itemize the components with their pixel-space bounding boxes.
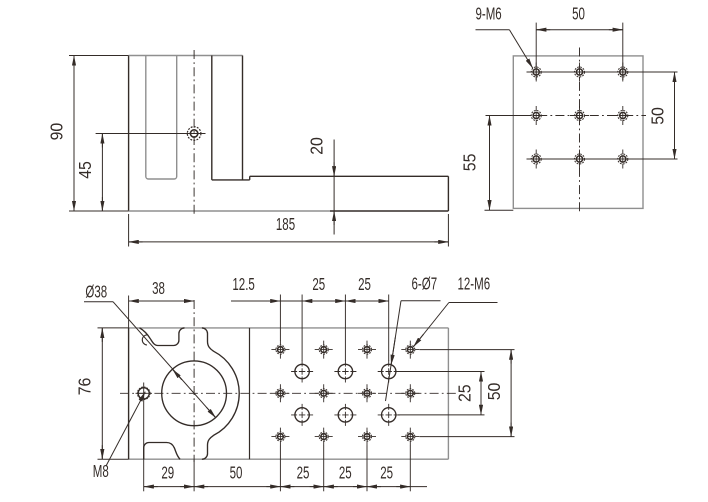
M6 hole bottom r1c3 — [358, 341, 376, 359]
bottom view: boss contour (arc around bore) — [202, 328, 239, 459]
M6 hole r2c1 — [527, 106, 546, 125]
svg-text:45: 45 — [75, 161, 95, 179]
svg-text:50: 50 — [647, 107, 667, 125]
bottom view: bottom edge — [129, 458, 449, 460]
M6 hole bottom r3c1 — [271, 428, 289, 446]
svg-text:29: 29 — [161, 463, 174, 483]
right view: col3 extension line — [622, 23, 624, 80]
hole dia7 r2c1 — [291, 404, 313, 426]
svg-text:25: 25 — [297, 463, 310, 483]
extension line M8 down — [143, 399, 145, 491]
M6 hole bottom r2c1 — [271, 384, 289, 402]
svg-text:25: 25 — [339, 463, 352, 483]
svg-text:38: 38 — [152, 278, 165, 298]
svg-text:90: 90 — [47, 123, 67, 141]
dimension 25 bottom third — [367, 463, 427, 487]
M6 hole r3c2 — [570, 150, 589, 169]
dimension 50 bottom — [194, 463, 280, 487]
extension line M6 col1 down — [279, 446, 281, 492]
M6 hole r2c2 — [570, 106, 589, 125]
dimension 25 bottom first — [280, 463, 323, 487]
M6 hole r3c1 — [527, 150, 546, 169]
side view: arm top edge — [250, 175, 449, 177]
right view: col1 extension line — [535, 23, 537, 80]
right view: row 1 line — [527, 71, 678, 73]
hole dia7 r2c2 — [334, 404, 356, 426]
bottom view: M8 hole — [137, 383, 150, 400]
dimension 76 — [74, 328, 128, 459]
side view: hole horizontal line / 45 extension — [96, 133, 206, 135]
side view: slot 2 walls and bottom shelf — [212, 56, 250, 180]
bottom view: horizontal centerline solid stub through M8 — [136, 392, 153, 394]
bottom view: bore circle D38 — [162, 361, 227, 426]
dimension 25 top second — [345, 274, 388, 301]
right view: row 3 line — [527, 158, 678, 160]
side view: vertical centerline — [193, 50, 195, 217]
svg-text:50: 50 — [484, 383, 504, 401]
svg-text:12-M6: 12-M6 — [457, 274, 490, 294]
M6 hole bottom r3c3 — [358, 428, 376, 446]
label 9-M6 with leader — [475, 4, 532, 69]
hole dia7 r1c2 — [334, 361, 356, 383]
dimension 50 right — [647, 72, 674, 159]
bottom view: step line — [249, 328, 251, 459]
side view: top edge — [129, 55, 243, 57]
extension line dia7 col2 up — [344, 295, 346, 362]
M6 hole bottom r2c4 — [401, 384, 419, 402]
extension line dia7 col3 up — [388, 295, 390, 362]
svg-text:20: 20 — [306, 137, 326, 155]
label dia38 with leader — [84, 282, 216, 418]
hole dia7 r2c3 — [378, 404, 400, 426]
M6 hole r1c2 — [570, 63, 589, 82]
svg-text:25: 25 — [312, 274, 325, 294]
extension line M6 col4 down — [409, 446, 411, 492]
M6 hole bottom r2c3 — [358, 384, 376, 402]
extension line M6 col2 down — [323, 446, 325, 492]
side view: center hole M8 — [187, 127, 201, 141]
right view: outline rectangle — [513, 56, 643, 209]
M6 hole bottom r3c2 — [315, 428, 333, 446]
side view: slot 1 walls and bottom — [146, 56, 177, 180]
svg-text:25: 25 — [455, 384, 475, 402]
side view: left edge — [128, 56, 130, 212]
side view: arm right edge — [447, 176, 449, 211]
extension lines right: dia7 rows — [398, 372, 485, 415]
dimension 50 top — [536, 4, 623, 30]
svg-text:55: 55 — [460, 154, 480, 172]
bottom view: small arc detail top-left — [142, 335, 148, 345]
right view: row 2 centerline — [486, 115, 647, 117]
extension line left edge up for 38 — [128, 296, 130, 328]
svg-text:25: 25 — [380, 463, 393, 483]
dimension 29 — [144, 463, 194, 487]
dimension 185 — [129, 214, 449, 247]
dimension 25 bottom second — [324, 463, 367, 487]
dimension 50 right — [484, 350, 511, 437]
extension lines right: M6 rows — [420, 350, 515, 437]
dimension 25 right — [455, 372, 481, 415]
dimension 55 left — [460, 116, 514, 211]
svg-text:6-Ø7: 6-Ø7 — [411, 274, 437, 294]
svg-text:Ø38: Ø38 — [85, 282, 107, 302]
dimension 25 top first — [302, 274, 345, 301]
dimension 45 — [75, 134, 102, 212]
M6 hole r2c3 — [613, 106, 632, 125]
M6 hole bottom r1c1 — [271, 341, 289, 359]
dimension 12.5 — [231, 274, 316, 301]
extension line M6 col3 down — [366, 446, 368, 492]
dimension 38 — [129, 278, 195, 301]
side view: step up to arm — [249, 176, 251, 180]
label 12-M6 with leader — [413, 274, 497, 347]
bottom view: horizontal centerline — [120, 392, 456, 394]
bottom view: left edge — [128, 328, 130, 459]
right view: column 2 centerline — [579, 48, 581, 215]
bottom view: clamp contour bottom — [144, 443, 180, 460]
bottom view: clamp contour top — [140, 328, 185, 346]
M6 hole r3c3 — [613, 150, 632, 169]
M6 hole r1c3 — [613, 63, 632, 82]
label M8 with leader — [93, 392, 145, 482]
hole dia7 r1c1 — [291, 361, 313, 383]
hole dia7 r1c3 — [378, 361, 400, 383]
bottom view: vertical centerline through bore — [193, 300, 195, 491]
M6 hole bottom r1c2 — [315, 341, 333, 359]
svg-text:50: 50 — [230, 463, 243, 483]
bottom view: top edge — [129, 327, 449, 329]
side view: bottom edge — [129, 210, 449, 212]
svg-text:76: 76 — [74, 378, 94, 396]
bottom view: right edge — [447, 328, 449, 459]
M6 hole bottom r2c2 — [315, 384, 333, 402]
svg-text:9-M6: 9-M6 — [475, 4, 501, 24]
extension line dia7 col1 up — [301, 295, 303, 362]
svg-text:50: 50 — [572, 4, 585, 24]
M6 hole r1c1 — [527, 63, 546, 82]
svg-text:25: 25 — [358, 274, 371, 294]
label 6-dia7 with leader — [386, 274, 441, 401]
M6 hole bottom r1c4 — [401, 341, 419, 359]
M6 hole bottom r3c4 — [401, 428, 419, 446]
dimension 20 — [306, 137, 334, 234]
svg-text:185: 185 — [276, 214, 295, 234]
extension line M6 col1 up — [279, 295, 281, 342]
svg-text:12.5: 12.5 — [232, 274, 254, 294]
dimension 90 — [47, 56, 129, 212]
